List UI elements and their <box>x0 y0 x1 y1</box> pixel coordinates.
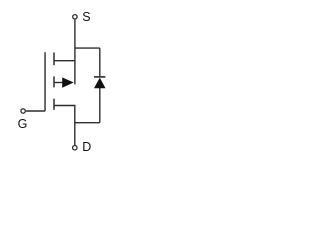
wire diode anode vertical <box>99 88 101 123</box>
channel segment top <box>53 53 55 66</box>
wire branch to diode cathode <box>75 47 100 49</box>
wire source stub <box>54 60 75 62</box>
terminal S circle <box>73 15 77 19</box>
terminal G circle <box>21 109 25 113</box>
channel segment middle <box>53 76 55 87</box>
channel segment bottom <box>53 99 55 110</box>
diode D1 cathode bar <box>94 76 105 78</box>
svg-text:S: S <box>82 10 90 24</box>
wire diode anode to drain <box>75 122 100 124</box>
svg-text:D: D <box>82 140 91 154</box>
wire gate lead to G <box>26 110 45 112</box>
svg-text:G: G <box>18 117 28 131</box>
terminal D circle <box>73 146 77 150</box>
N-channel power MOSFET with body diode schematic <box>0 0 128 178</box>
wire drain stub and lead to D <box>54 106 75 146</box>
gate electrode plate <box>44 52 46 111</box>
wire body stub <box>54 82 64 84</box>
wire diode cathode vertical <box>99 48 101 77</box>
diode D1 triangle <box>94 78 106 89</box>
wire source vertical (S to body conductor) <box>74 20 76 85</box>
body arrow head <box>62 77 73 87</box>
